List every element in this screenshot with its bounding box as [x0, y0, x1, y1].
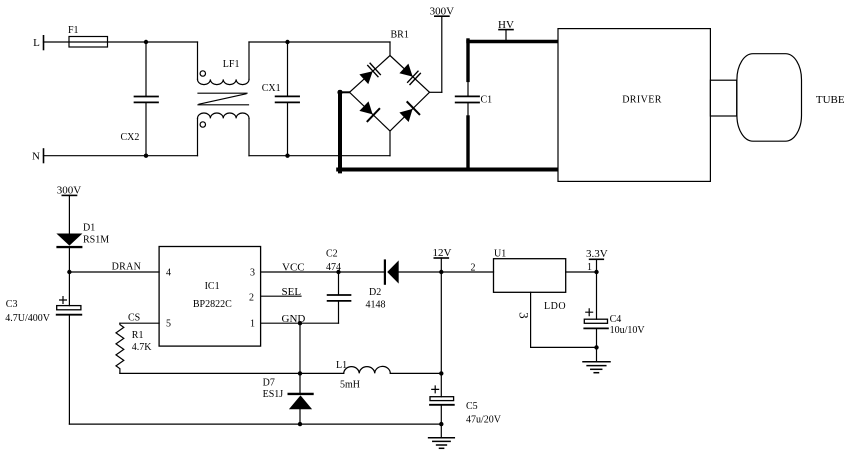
svg-text:4.7U/400V: 4.7U/400V [5, 313, 51, 324]
svg-text:DRAN: DRAN [112, 261, 142, 272]
svg-text:47u/20V: 47u/20V [466, 415, 502, 426]
svg-text:2: 2 [471, 262, 476, 273]
svg-text:10u/10V: 10u/10V [610, 325, 646, 336]
svg-text:CS: CS [128, 313, 140, 324]
svg-text:GND: GND [282, 313, 306, 325]
svg-text:3: 3 [516, 312, 531, 319]
svg-text:HV: HV [498, 19, 514, 31]
svg-text:LF1: LF1 [223, 59, 240, 70]
svg-text:D7: D7 [263, 378, 275, 389]
svg-text:DRIVER: DRIVER [622, 94, 662, 105]
svg-text:D2: D2 [369, 287, 381, 298]
svg-text:5: 5 [166, 319, 171, 330]
svg-text:C1: C1 [481, 95, 493, 106]
svg-text:BR1: BR1 [391, 30, 409, 41]
svg-text:C4: C4 [610, 314, 622, 325]
svg-text:1: 1 [587, 262, 592, 273]
svg-text:C3: C3 [6, 299, 18, 310]
svg-text:12V: 12V [433, 247, 452, 259]
svg-text:BP2822C: BP2822C [193, 299, 232, 310]
svg-text:L1: L1 [336, 360, 347, 371]
svg-text:F1: F1 [68, 25, 79, 36]
svg-text:5mH: 5mH [340, 380, 360, 391]
svg-text:IC1: IC1 [205, 281, 220, 292]
svg-text:3.3V: 3.3V [586, 248, 608, 260]
svg-text:N: N [32, 150, 40, 162]
svg-text:R1: R1 [132, 330, 144, 341]
svg-text:VCC: VCC [282, 261, 305, 273]
svg-text:D1: D1 [83, 223, 95, 234]
svg-text:CX1: CX1 [262, 83, 281, 94]
svg-text:4.7K: 4.7K [132, 342, 153, 353]
svg-text:300V: 300V [57, 185, 82, 197]
svg-text:4148: 4148 [366, 300, 386, 311]
svg-text:ES1J: ES1J [263, 389, 284, 400]
svg-text:TUBE: TUBE [816, 94, 845, 106]
svg-text:C5: C5 [466, 401, 478, 412]
svg-text:SEL: SEL [282, 286, 302, 298]
svg-text:300V: 300V [430, 5, 455, 17]
svg-text:CX2: CX2 [121, 132, 140, 143]
svg-text:474: 474 [326, 262, 341, 273]
svg-text:4: 4 [166, 267, 171, 278]
svg-text:RS1M: RS1M [83, 235, 109, 246]
svg-text:L: L [33, 37, 40, 49]
svg-text:3: 3 [250, 267, 255, 278]
svg-text:C2: C2 [326, 248, 338, 259]
svg-text:U1: U1 [494, 248, 506, 259]
svg-text:LDO: LDO [544, 301, 566, 312]
svg-text:1: 1 [250, 319, 255, 330]
svg-text:2: 2 [249, 293, 254, 304]
